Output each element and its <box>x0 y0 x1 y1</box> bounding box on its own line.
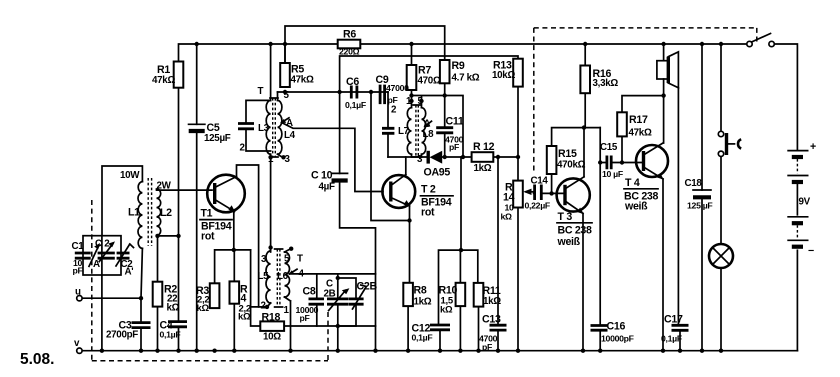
wire L3 bottom to L5 pin3 <box>270 154 272 252</box>
capacitor C16 <box>591 326 608 331</box>
resistor R16 <box>580 66 590 94</box>
transistor T4 base bar <box>642 151 645 171</box>
arrowhead C1 <box>94 243 100 249</box>
wire gang top rail <box>290 273 376 275</box>
resistor R8 <box>403 283 413 306</box>
wire oscillator R18 riser <box>251 250 376 326</box>
dashed amplifier enclosure top <box>534 27 757 29</box>
capacitor C13 <box>490 325 507 330</box>
core end bars L3 L4 <box>270 98 278 157</box>
capacitor C18 thick plate <box>693 195 711 199</box>
wire T4 emitter to ground <box>662 179 664 351</box>
wire T2 emitter to R8 <box>408 206 409 351</box>
svg-text:220Ω: 220Ω <box>339 47 360 57</box>
core L1 L2 <box>148 178 151 246</box>
svg-text:470kΩ: 470kΩ <box>557 160 586 171</box>
dashed gang mechanical link <box>327 312 329 361</box>
svg-text:rot: rot <box>201 231 215 243</box>
terminal u <box>77 296 82 301</box>
svg-text:3: 3 <box>261 254 267 265</box>
svg-text:0,1µF: 0,1µF <box>160 330 181 340</box>
transistor T4 circle <box>636 145 668 177</box>
wire AGC rail (wire3) <box>340 56 518 92</box>
svg-text:R15: R15 <box>558 148 577 160</box>
wire L7L8 bottom stubs <box>412 154 422 157</box>
coil L6 <box>285 252 290 297</box>
svg-text:4: 4 <box>299 269 305 280</box>
wire speaker T4 collector column <box>663 44 665 143</box>
capacitor C6 <box>351 86 357 99</box>
capacitor C1 plates <box>75 253 91 258</box>
transistor T3 circle <box>557 178 590 211</box>
pushbutton contacts <box>718 131 723 136</box>
resistor R3 <box>210 283 220 308</box>
svg-text:C17: C17 <box>664 314 683 326</box>
svg-text:L5: L5 <box>258 271 270 282</box>
battery cell 2 short plate <box>792 180 803 184</box>
svg-text:2: 2 <box>240 143 246 154</box>
svg-text:C16: C16 <box>607 321 626 333</box>
battery cell 1 long plate <box>787 150 808 152</box>
svg-text:1: 1 <box>406 96 412 107</box>
wire T3 collector lead <box>583 128 585 177</box>
battery cell 2 long plate <box>787 175 808 177</box>
resistor R9 <box>440 60 450 83</box>
transistor T3 base bar <box>563 185 566 205</box>
variable capacitor C2B <box>349 299 364 304</box>
wire supply rail right <box>360 43 748 45</box>
svg-text:9V: 9V <box>799 197 811 208</box>
svg-text:T 4: T 4 <box>625 177 640 189</box>
svg-text:T: T <box>297 254 303 265</box>
switch contacts <box>747 41 752 46</box>
core L5 L6 <box>277 249 280 307</box>
svg-text:A': A' <box>125 267 134 278</box>
wire C18 column <box>701 44 703 351</box>
battery link dash 2 <box>796 225 798 239</box>
wire C8 riser <box>316 274 318 326</box>
wire R1 column <box>178 88 180 351</box>
svg-text:L4: L4 <box>284 130 296 141</box>
svg-text:kΩ: kΩ <box>167 303 180 314</box>
svg-text:R17: R17 <box>629 114 648 126</box>
svg-text:2B: 2B <box>324 289 336 300</box>
dashed tuner enclosure bottom <box>92 360 328 362</box>
wire L3 cap branch <box>246 100 271 151</box>
svg-text:2: 2 <box>391 105 397 116</box>
wire supply rail left <box>179 44 338 62</box>
capacitor C10 plates <box>331 172 349 174</box>
svg-text:weiß: weiß <box>557 236 581 248</box>
wire ground rail <box>82 350 797 352</box>
svg-text:1kΩ: 1kΩ <box>483 296 501 307</box>
svg-text:C 10: C 10 <box>311 170 333 182</box>
coil L5 <box>266 251 271 303</box>
svg-text:5.08.: 5.08. <box>20 351 54 368</box>
svg-text:0,1µF: 0,1µF <box>412 333 433 343</box>
svg-text:C14: C14 <box>531 176 549 187</box>
svg-text:10Ω: 10Ω <box>263 332 281 343</box>
arrow C2 <box>99 244 113 262</box>
svg-text:0,22µF: 0,22µF <box>525 201 550 211</box>
svg-text:47kΩ: 47kΩ <box>152 75 175 86</box>
wire C10 column <box>340 92 376 351</box>
transistor T2 circle <box>382 175 415 208</box>
svg-text:125µF: 125µF <box>204 133 231 144</box>
core L3 L4 <box>273 98 276 157</box>
pushbutton knob C <box>738 139 741 148</box>
wire C13 column <box>497 157 499 351</box>
svg-text:5: 5 <box>284 254 290 265</box>
wire C15 C16 column <box>599 128 601 351</box>
tap 4 of L6 <box>290 269 298 274</box>
transistor T3 legs <box>565 177 584 214</box>
arrowhead R14 wiper <box>523 189 531 195</box>
coil L2 <box>157 189 161 235</box>
svg-text:C 2: C 2 <box>95 239 110 250</box>
capacitor C15 <box>607 156 611 170</box>
wire T1 base from L2 <box>157 189 213 191</box>
svg-text:BC 238: BC 238 <box>558 225 593 237</box>
wire C15 row <box>600 162 643 164</box>
tuner center shaft <box>101 236 103 275</box>
terminal v <box>77 348 82 353</box>
transistor T2 base bar <box>389 182 392 202</box>
svg-text:A: A <box>286 118 293 129</box>
wire R7 column <box>411 44 413 108</box>
battery cell 3 long plate <box>787 216 808 218</box>
wire gang ground stub <box>337 326 339 351</box>
svg-text:3: 3 <box>417 154 423 165</box>
arrow 2B <box>329 290 346 310</box>
wire tuner center column lower <box>101 275 103 351</box>
wire battery bottom lead <box>796 250 798 350</box>
transistor T2 emitter arrowhead <box>404 200 411 207</box>
transistor T1 legs <box>215 177 237 212</box>
transistor T4 emitter arrowhead <box>657 173 664 180</box>
arrow C1 <box>89 245 99 266</box>
svg-text:pF: pF <box>482 342 492 352</box>
transistor T1 circle <box>207 175 245 213</box>
wire u input <box>82 297 141 299</box>
pushbutton stem <box>727 143 735 145</box>
resistor R7 <box>407 65 417 90</box>
wire R15 branch <box>552 128 601 194</box>
svg-text:R18: R18 <box>262 312 281 324</box>
core L7 L8 <box>416 105 418 157</box>
dashed amplifier enclosure right stub <box>756 28 758 42</box>
svg-text:T 3: T 3 <box>558 211 573 223</box>
svg-text:pF: pF <box>388 95 398 105</box>
capacitor C9 <box>380 85 385 105</box>
wire L4 top riser <box>277 92 279 100</box>
wire T3 emitter to ground <box>582 214 584 351</box>
svg-text:4µF: 4µF <box>319 182 335 193</box>
coil L8 <box>422 108 426 155</box>
wire L5 pin2 row <box>251 306 267 308</box>
coil L3 <box>266 100 270 154</box>
wire switch to battery <box>774 44 797 151</box>
wire T2 collector lead <box>405 157 407 175</box>
transistor T1 emitter arrowhead <box>228 205 235 212</box>
svg-text:10W: 10W <box>120 170 140 181</box>
capacitor across L7 <box>382 128 394 133</box>
capacitor across L3 <box>238 124 254 129</box>
speaker box <box>657 61 669 79</box>
svg-text:kΩ: kΩ <box>197 303 210 314</box>
svg-text:weiß: weiß <box>624 201 648 213</box>
battery link dash 1 <box>796 159 798 174</box>
svg-text:C11: C11 <box>446 116 464 128</box>
svg-text:470Ω: 470Ω <box>418 76 441 87</box>
diode OA95 <box>430 151 443 164</box>
transistor T1 base bar <box>213 183 216 204</box>
svg-text:C6: C6 <box>346 76 359 88</box>
resistor R15 <box>547 146 557 174</box>
svg-text:v: v <box>74 338 80 349</box>
svg-text:u: u <box>75 287 81 298</box>
potentiometer R14 <box>513 181 523 208</box>
capacitor C5 thick plate <box>189 129 205 133</box>
resistor R12 <box>472 152 494 162</box>
svg-text:C18: C18 <box>685 178 703 189</box>
wire L5 column <box>267 247 271 307</box>
svg-text:R8: R8 <box>414 285 427 297</box>
wire L4 bottom pin stub <box>278 154 283 157</box>
svg-text:A: A <box>93 259 100 270</box>
svg-text:10000pF: 10000pF <box>601 334 634 344</box>
svg-text:C2B: C2B <box>357 281 378 293</box>
wire T1 emitter row <box>215 212 251 351</box>
switch lever <box>752 34 771 43</box>
svg-text:L6: L6 <box>277 271 289 282</box>
resistor R6 <box>338 40 361 49</box>
battery mid lead <box>796 184 798 215</box>
pushbutton actuator <box>725 133 728 155</box>
svg-text:47000: 47000 <box>386 83 409 93</box>
resistor R10 <box>456 283 466 306</box>
wire C5 column <box>196 44 198 351</box>
wire L1 loop top <box>102 166 142 236</box>
svg-text:kΩ: kΩ <box>238 312 251 323</box>
capacitor C4 <box>168 322 187 327</box>
battery cell 1 short plate <box>792 155 803 159</box>
lamp <box>709 244 733 268</box>
svg-text:T: T <box>258 86 264 97</box>
svg-text:L1: L1 <box>128 207 140 219</box>
wire R14 wiper arrow <box>526 191 534 193</box>
wire IF rail (wire92) <box>278 91 389 93</box>
svg-text:1: 1 <box>268 154 274 165</box>
lamp filament cross <box>713 248 730 265</box>
capacitor C8 <box>309 299 325 304</box>
svg-text:47kΩ: 47kΩ <box>629 128 652 139</box>
battery cell 4 short plate <box>792 245 803 249</box>
resistor R2 <box>153 282 163 307</box>
svg-text:L2: L2 <box>160 207 172 219</box>
svg-text:L8: L8 <box>423 129 435 140</box>
dashed amplifier enclosure left <box>533 28 535 171</box>
svg-text:T1: T1 <box>201 208 213 220</box>
svg-text:C15: C15 <box>600 142 618 153</box>
coil L4 <box>278 100 282 154</box>
wire pins rail L7L8 <box>412 96 464 158</box>
svg-text:R6: R6 <box>343 29 356 41</box>
wire R5 riser <box>284 44 286 63</box>
svg-text:C13: C13 <box>482 314 501 326</box>
wire pushbutton lamp column <box>720 44 722 351</box>
svg-text:1: 1 <box>284 305 290 316</box>
wire C14 row to T3 base <box>534 192 565 194</box>
wire L3 A-tap to T2 base <box>282 123 384 192</box>
core end bars L7 L8 <box>413 105 421 157</box>
capacitor C10 thick plate <box>332 178 348 182</box>
wire speaker horn C17 column <box>678 88 680 351</box>
svg-text:2: 2 <box>261 301 267 312</box>
svg-text:2700pF: 2700pF <box>106 330 138 341</box>
svg-text:125 µF: 125 µF <box>687 201 712 211</box>
svg-text:pF: pF <box>449 142 459 152</box>
capacitor C14 <box>535 185 542 201</box>
svg-text:A: A <box>424 119 431 130</box>
svg-text:OA95: OA95 <box>424 167 451 179</box>
resistor R4 <box>230 281 240 303</box>
svg-text:pF: pF <box>73 266 83 276</box>
wire R16 column <box>584 44 586 128</box>
speaker magnet bar <box>667 57 670 83</box>
capacitor C11 <box>436 128 453 133</box>
tap A of L4 <box>282 118 290 123</box>
svg-text:−: − <box>808 245 814 257</box>
battery cell 4 long plate <box>787 239 808 241</box>
svg-text:T 2: T 2 <box>421 184 436 196</box>
svg-text:0,1µF: 0,1µF <box>661 334 682 344</box>
wire R10 R11 bracket <box>439 157 479 351</box>
wire L3 top riser <box>270 44 272 100</box>
wire L6 risers <box>285 249 292 351</box>
resistor R5 <box>280 63 290 87</box>
capacitor C3 <box>132 323 151 328</box>
dashed tuner enclosure left <box>91 200 93 361</box>
capacitor C17 <box>672 325 689 330</box>
wire L1 bottom to C3 <box>141 248 142 350</box>
variable capacitor 2B <box>327 299 349 304</box>
svg-text:0,1µF: 0,1µF <box>345 100 366 110</box>
wire T1 collector loop <box>237 165 259 307</box>
wire R17 branch <box>622 96 664 163</box>
svg-text:10 µF: 10 µF <box>602 169 623 179</box>
core end bars L5 L6 <box>275 249 283 307</box>
diode OA95 cathode bar <box>427 151 430 164</box>
underline T4 <box>624 188 658 190</box>
svg-text:rot: rot <box>421 207 435 219</box>
arrow C2B <box>353 285 367 309</box>
capacitor C18 plates <box>692 189 712 191</box>
wire detector rail <box>388 156 519 158</box>
arrowhead 2B <box>342 288 350 294</box>
svg-text:C8: C8 <box>303 286 316 298</box>
svg-text:1kΩ: 1kΩ <box>414 297 432 308</box>
battery cell 3 short plate <box>792 221 803 225</box>
resistor R13 <box>513 59 523 87</box>
svg-text:kΩ: kΩ <box>440 305 453 316</box>
svg-text:10kΩ: 10kΩ <box>492 70 515 81</box>
transistor T2 legs <box>391 175 410 207</box>
svg-text:2W: 2W <box>157 181 172 192</box>
svg-text:C1: C1 <box>72 241 85 252</box>
svg-text:R 12: R 12 <box>473 141 495 153</box>
arrowhead C2 <box>108 241 115 247</box>
capacitor C2 plates <box>98 253 130 258</box>
speaker horn <box>668 52 678 88</box>
tuner gang box <box>83 236 121 275</box>
svg-text:5: 5 <box>284 90 290 101</box>
svg-text:4.7 kΩ: 4.7 kΩ <box>452 73 480 84</box>
svg-text:L7: L7 <box>398 126 410 137</box>
svg-text:3,3kΩ: 3,3kΩ <box>593 78 619 89</box>
svg-text:kΩ: kΩ <box>501 212 513 222</box>
wire R9 C11 column <box>444 83 446 157</box>
underline T3 <box>557 222 592 224</box>
wire R13 R14 column <box>517 87 519 351</box>
arrow C2 right section <box>116 244 134 266</box>
coil L1 <box>138 182 142 249</box>
resistor R11 <box>474 283 484 307</box>
underline T2 <box>421 195 454 197</box>
resistor R1 <box>174 62 184 88</box>
underline T1 <box>200 219 232 221</box>
capacitor C5 plates <box>188 123 206 125</box>
transistor T3 emitter arrowhead <box>577 208 584 215</box>
svg-text:L3: L3 <box>258 123 270 134</box>
coil L7 <box>407 108 411 155</box>
svg-text:3: 3 <box>285 154 291 165</box>
svg-text:1kΩ: 1kΩ <box>474 163 492 174</box>
wire top rail 1 <box>285 26 445 63</box>
capacitor C12 <box>430 325 450 330</box>
svg-text:+: + <box>810 141 816 153</box>
svg-text:pF: pF <box>300 313 310 323</box>
wire T2 emitter riser to wire92 <box>371 92 410 221</box>
wire L2 bottom node <box>158 235 179 350</box>
resistor R17 <box>617 112 627 136</box>
svg-text:R9: R9 <box>452 60 465 72</box>
wire L7 cap riser <box>387 92 389 157</box>
transistor T4 legs <box>644 143 664 179</box>
gang frame 2B C2B <box>338 274 356 326</box>
svg-text:47kΩ: 47kΩ <box>291 75 314 86</box>
resistor R18 <box>260 321 284 331</box>
svg-text:5: 5 <box>418 96 424 107</box>
tap A of L8 <box>425 121 432 126</box>
